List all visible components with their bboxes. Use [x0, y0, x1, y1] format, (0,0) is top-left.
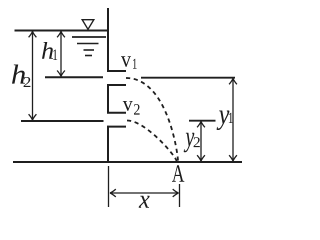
label v2 — [123, 101, 133, 111]
label y1 — [217, 110, 230, 130]
spout 1 top lip — [107, 70, 126, 72]
hole 2 level line (inside tank) — [21, 120, 104, 122]
tank right wall lower segment — [107, 126, 109, 162]
y2 reference line (hole 2 level, right side) — [189, 120, 216, 122]
spout 1 bottom lip — [107, 84, 126, 86]
label h2 — [12, 65, 25, 84]
hole 1 level line (inside tank) — [45, 76, 103, 78]
x dimension left extension line (below wall) — [108, 166, 110, 207]
dimension h1 arrow (double-headed vertical) — [57, 32, 65, 77]
label h1 — [42, 42, 53, 59]
water surface line — [15, 30, 109, 32]
ground line — [13, 161, 242, 163]
dimension h2 arrow (double-headed vertical) — [29, 32, 37, 121]
label y2 — [184, 133, 195, 153]
water shading line 1 — [72, 36, 106, 38]
label x — [139, 196, 150, 208]
label v1 — [121, 56, 131, 67]
x dimension right extension line (below A) — [179, 184, 181, 207]
tank right wall upper segment — [107, 8, 109, 72]
spout 2 top lip — [107, 112, 126, 114]
trajectory of jet v2 (dashed parabola to A) — [127, 121, 177, 162]
water surface symbol (nabla) — [82, 20, 94, 30]
water shading line 4 — [85, 55, 92, 57]
water shading line 2 — [77, 43, 99, 45]
spout 2 bottom lip — [107, 126, 126, 128]
label A (landing point) — [172, 165, 184, 181]
dimension y1 arrow (double-headed vertical) — [229, 79, 237, 162]
y1 reference line (hole 1 level, right side) — [141, 77, 235, 79]
dimension y2 arrow (double-headed vertical) — [197, 122, 205, 162]
tank right wall middle segment — [107, 84, 109, 113]
water shading line 3 — [84, 49, 95, 51]
trajectory of jet v1 (dashed parabola to A) — [126, 78, 178, 161]
dimension x arrow (double-headed horizontal) — [110, 189, 179, 197]
